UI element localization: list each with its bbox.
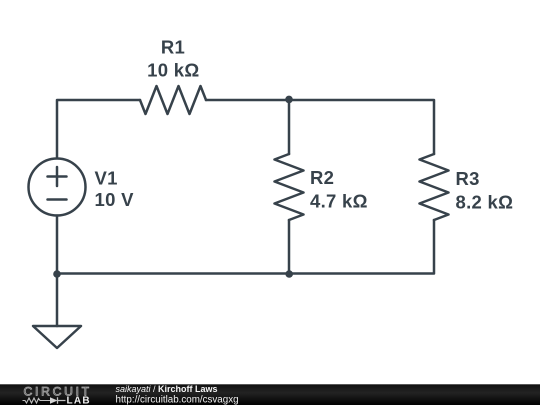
- logo resistor glyph: [23, 398, 51, 403]
- svg-text:8.2 kΩ: 8.2 kΩ: [456, 191, 514, 212]
- svg-text:saikayati / Kirchoff Laws: saikayati / Kirchoff Laws: [116, 384, 218, 394]
- resistor R2 (zigzag): [275, 154, 304, 220]
- logo diode glyph: [50, 397, 58, 404]
- svg-text:10 kΩ: 10 kΩ: [147, 60, 199, 81]
- V1 plus sign: [48, 167, 67, 186]
- footer bar background: [0, 384, 540, 405]
- wire: ground stub: [56, 274, 59, 327]
- svg-text:4.7 kΩ: 4.7 kΩ: [310, 190, 368, 211]
- svg-text:http://circuitlab.com/csvagxg: http://circuitlab.com/csvagxg: [116, 395, 239, 405]
- node junction dot: bottom rail at V1/ground: [53, 270, 61, 278]
- svg-text:R3: R3: [456, 168, 480, 189]
- wire: R2 top stub from top rail: [288, 100, 291, 154]
- svg-text:R2: R2: [310, 167, 334, 188]
- wire: V1 bottom terminal to bottom rail: [56, 216, 59, 274]
- svg-text:R1: R1: [161, 37, 185, 58]
- V1 minus sign: [48, 198, 67, 201]
- wire: R1 right lead across top to right branch, down to R3 top: [206, 100, 434, 154]
- svg-text:10 V: 10 V: [95, 189, 135, 210]
- node junction dot: bottom rail at R2: [285, 270, 293, 278]
- ground symbol triangle: [33, 326, 81, 348]
- resistor R3 (zigzag): [420, 154, 449, 220]
- resistor R1 (zigzag): [140, 86, 206, 114]
- svg-text:LAB: LAB: [67, 395, 91, 405]
- voltage source V1 circle: [29, 159, 86, 216]
- svg-text:V1: V1: [95, 167, 118, 188]
- wire: V1 top terminal up and across to R1 left lead: [57, 100, 140, 159]
- wire: R2 bottom stub to bottom rail: [288, 220, 291, 274]
- wire: R3 bottom down and across bottom rail to left: [57, 220, 434, 274]
- node junction dot: top rail at R2: [285, 96, 293, 104]
